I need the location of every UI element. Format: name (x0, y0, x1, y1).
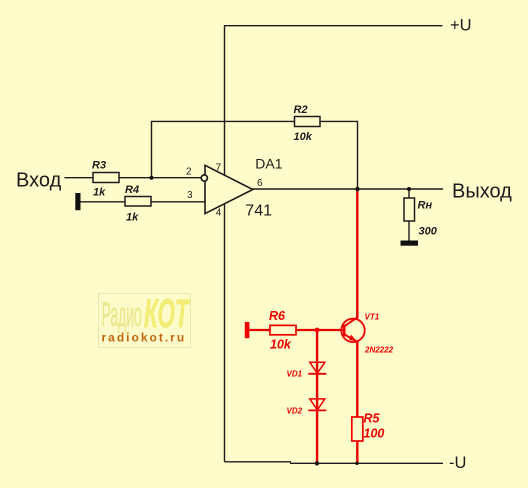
svg-text:R4: R4 (125, 184, 139, 196)
svg-text:+U: +U (450, 17, 472, 35)
svg-text:4: 4 (216, 208, 222, 219)
svg-text:3: 3 (187, 190, 193, 201)
svg-text:Вход: Вход (16, 169, 62, 191)
svg-text:300: 300 (419, 226, 438, 238)
svg-text:VD2: VD2 (287, 407, 303, 416)
svg-text:Выход: Выход (452, 181, 512, 203)
svg-text:7: 7 (216, 163, 222, 174)
svg-text:VD1: VD1 (287, 370, 303, 379)
svg-text:6: 6 (257, 178, 263, 189)
svg-text:10k: 10k (270, 338, 292, 352)
svg-text:2N2222: 2N2222 (364, 346, 394, 355)
svg-text:radiokot.ru: radiokot.ru (102, 331, 187, 345)
svg-text:Rн: Rн (418, 200, 433, 212)
svg-text:-U: -U (449, 454, 466, 472)
svg-text:VT1: VT1 (365, 313, 380, 322)
svg-text:2: 2 (186, 167, 192, 178)
svg-text:1k: 1k (93, 187, 106, 199)
svg-text:R2: R2 (294, 104, 308, 116)
svg-text:100: 100 (364, 427, 385, 441)
svg-text:Радио: Радио (102, 295, 142, 334)
svg-text:10k: 10k (294, 131, 313, 143)
svg-text:КОТ: КОТ (144, 291, 191, 335)
svg-text:741: 741 (245, 202, 272, 219)
svg-text:DA1: DA1 (255, 155, 282, 171)
svg-text:R6: R6 (269, 309, 286, 323)
svg-text:R5: R5 (364, 412, 381, 426)
svg-text:R3: R3 (92, 160, 106, 172)
svg-text:1k: 1k (126, 212, 139, 224)
